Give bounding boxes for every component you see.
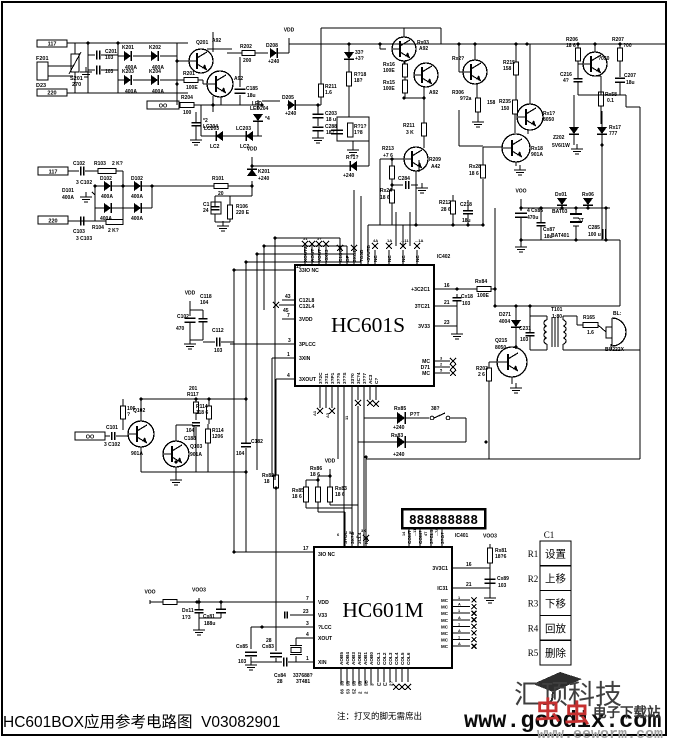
svg-text:18: 18 (264, 479, 270, 485)
svg-text:LC2: LC2 (210, 144, 220, 150)
svg-text:A92: A92 (419, 46, 428, 52)
svg-text:注：打叉的脚无需席出: 注：打叉的脚无需席出 (337, 711, 422, 721)
svg-text:+240: +240 (393, 452, 405, 458)
svg-text:3T: 3T (578, 218, 584, 224)
svg-text:+3?: +3? (355, 56, 364, 62)
svg-text:IC401: IC401 (455, 533, 469, 539)
svg-text:Z202: Z202 (553, 135, 565, 141)
svg-text:Rx24: Rx24 (380, 188, 392, 194)
svg-text:HC601BOX应用参考电路图 V03082901: HC601BOX应用参考电路图 V03082901 (3, 712, 280, 731)
svg-text:AOB0: AOB0 (369, 652, 374, 665)
svg-text:D208: D208 (266, 43, 278, 49)
svg-text:4: 4 (306, 632, 309, 638)
svg-text:R3: R3 (528, 599, 539, 609)
svg-text:400A: 400A (125, 89, 137, 95)
svg-text:COMT: COMT (407, 530, 412, 544)
svg-text:R202: R202 (240, 44, 252, 50)
svg-text:S?OC: S?OC (343, 530, 348, 544)
svg-text:BAT03: BAT03 (552, 209, 568, 215)
svg-text:AOB1: AOB1 (363, 652, 368, 665)
svg-text:+240: +240 (258, 176, 269, 182)
svg-text:117: 117 (48, 42, 57, 48)
svg-text:470u: 470u (527, 215, 538, 221)
svg-text:NC: NC (387, 255, 392, 262)
svg-text:K204: K204 (149, 69, 161, 75)
svg-text:1: 1 (306, 656, 309, 662)
svg-text:R212: R212 (439, 200, 451, 206)
svg-text:158: 158 (487, 100, 496, 106)
svg-text:17: 17 (296, 264, 302, 270)
svg-text:...1A: ...1A (415, 238, 424, 243)
svg-text:C182: C182 (251, 439, 263, 445)
svg-text:K202: K202 (149, 45, 161, 51)
svg-text:COL1: COL1 (376, 652, 381, 665)
svg-text:删除: 删除 (545, 647, 566, 660)
svg-text:4: 4 (287, 373, 290, 379)
svg-text:R201: R201 (183, 71, 195, 77)
svg-text:103: 103 (520, 337, 529, 343)
svg-text:100E: 100E (383, 86, 395, 92)
svg-text:MC: MC (441, 638, 449, 643)
svg-text:C185: C185 (246, 86, 258, 92)
svg-text:D101: D101 (62, 188, 74, 194)
svg-text:470: 470 (176, 326, 185, 332)
svg-text:MC: MC (441, 611, 449, 616)
svg-text:LC203: LC203 (236, 126, 251, 132)
svg-text:VDD: VDD (247, 147, 258, 153)
svg-text:16: 16 (444, 283, 450, 289)
svg-text:3b: 3b (340, 680, 345, 686)
svg-text:电子下载站: 电子下载站 (593, 704, 661, 720)
svg-text:VDD: VDD (325, 459, 336, 465)
svg-text:HC601M: HC601M (342, 598, 423, 622)
svg-text:400A: 400A (131, 194, 143, 200)
svg-text:VDD: VDD (318, 600, 329, 606)
svg-text:R306: R306 (452, 90, 464, 96)
svg-text:4T: 4T (424, 531, 428, 536)
svg-text:D205: D205 (282, 95, 294, 101)
svg-text:103: 103 (462, 301, 471, 307)
svg-text:18?6: 18?6 (495, 554, 507, 560)
svg-text:C218: C218 (460, 202, 472, 208)
svg-text:66: 66 (340, 688, 345, 694)
svg-text:3 K: 3 K (406, 130, 414, 136)
svg-text:3PLCC: 3PLCC (299, 342, 316, 348)
svg-text:3 C103: 3 C103 (76, 236, 92, 242)
svg-text:18 6: 18 6 (310, 472, 320, 478)
svg-text:⊏: ⊏ (382, 682, 388, 686)
svg-text:117: 117 (49, 170, 58, 176)
svg-text:R165: R165 (583, 315, 595, 321)
svg-text:A: A (458, 642, 461, 646)
svg-text:220 E: 220 E (236, 210, 250, 216)
svg-text:8050: 8050 (495, 345, 506, 351)
svg-text:NC: NC (415, 255, 420, 262)
svg-text:38?: 38? (431, 406, 440, 412)
svg-text:...11: ...11 (413, 529, 417, 536)
svg-text:A92: A92 (234, 76, 243, 82)
svg-text:901A: 901A (531, 152, 543, 158)
svg-text:0.1: 0.1 (607, 98, 614, 104)
svg-text:+3C2C1: +3C2C1 (411, 287, 430, 293)
svg-text:R209: R209 (429, 157, 441, 163)
svg-text:188u: 188u (204, 621, 215, 627)
svg-text:21: 21 (466, 582, 472, 588)
svg-text:Cx18: Cx18 (461, 294, 473, 300)
svg-text:Rx2?: Rx2? (452, 56, 464, 62)
svg-text:100E: 100E (383, 68, 395, 74)
svg-text:C102: C102 (73, 161, 85, 167)
svg-text:上移: 上移 (545, 572, 566, 585)
svg-text:OO: OO (159, 104, 168, 110)
svg-text:53: 53 (346, 688, 351, 694)
svg-text:COL2: COL2 (382, 652, 387, 665)
svg-text:C1: C1 (544, 530, 555, 540)
svg-text:D102: D102 (100, 176, 112, 182)
svg-text:BAT401: BAT401 (551, 233, 569, 239)
svg-text:18 6: 18 6 (469, 171, 479, 177)
svg-text:18u: 18u (626, 80, 635, 86)
svg-text:Q201: Q201 (196, 40, 208, 46)
svg-text:5b: 5b (352, 680, 357, 686)
svg-text:HC601S: HC601S (331, 313, 405, 337)
svg-text:4A: 4A (373, 238, 378, 243)
svg-text:COM?: COM? (418, 530, 423, 544)
svg-text:+240: +240 (343, 173, 354, 179)
svg-text:3C?4: 3C?4 (356, 372, 361, 384)
svg-text:Q215: Q215 (495, 338, 507, 344)
svg-text:下移: 下移 (545, 597, 566, 610)
svg-text:C102: C102 (177, 314, 189, 320)
svg-text:888888888: 888888888 (409, 514, 478, 529)
svg-text:AOB3: AOB3 (351, 652, 356, 665)
svg-text:BU222X: BU222X (605, 347, 625, 353)
svg-text:A1: A1 (312, 410, 317, 416)
svg-text:100E: 100E (186, 85, 198, 91)
svg-text:Rx28: Rx28 (469, 164, 481, 170)
svg-text:R117: R117 (187, 392, 199, 398)
svg-text:3: 3 (306, 621, 309, 627)
svg-text:AOB5: AOB5 (339, 652, 344, 665)
svg-text:104: 104 (236, 451, 245, 457)
svg-text:?: ? (127, 412, 130, 418)
svg-text:COL5: COL5 (400, 652, 405, 665)
svg-text:COL6: COL6 (406, 652, 411, 665)
svg-text:XOUT2: XOUT2 (303, 246, 308, 262)
svg-text:COL4: COL4 (394, 652, 399, 665)
svg-text:3??5: 3??5 (336, 373, 341, 384)
svg-text:Q102: Q102 (133, 408, 145, 414)
svg-text:1?8: 1?8 (354, 130, 363, 136)
svg-text:D271: D271 (499, 312, 511, 318)
svg-text:VDD: VDD (284, 28, 295, 34)
svg-text:103: 103 (498, 583, 507, 589)
svg-text:Rx85: Rx85 (394, 406, 406, 412)
svg-text:3X: 3X (361, 528, 366, 533)
svg-text:150: 150 (501, 106, 510, 112)
svg-text:400A: 400A (152, 89, 164, 95)
svg-text:K203: K203 (122, 69, 134, 75)
svg-text:MC: MC (441, 605, 449, 610)
svg-text:R103: R103 (94, 161, 106, 167)
svg-text:R?1?: R?1? (346, 155, 359, 161)
svg-text:⊏: ⊏ (376, 682, 382, 686)
svg-text:43: 43 (285, 294, 291, 300)
svg-text:5b: 5b (346, 680, 351, 686)
svg-text:C101: C101 (106, 425, 118, 431)
svg-text:LC203: LC203 (204, 126, 219, 132)
svg-text:C112: C112 (212, 328, 224, 334)
svg-text:R213: R213 (382, 146, 394, 152)
svg-text:3IO NC: 3IO NC (318, 552, 335, 558)
svg-text:158: 158 (503, 66, 512, 72)
svg-text:3VDD: 3VDD (299, 317, 313, 323)
svg-text:OO: OO (86, 435, 95, 441)
svg-text:3: 3 (288, 338, 291, 344)
svg-text:A: A (458, 629, 461, 633)
svg-text:2 K?: 2 K? (108, 228, 119, 234)
svg-text:?00: ?00 (623, 43, 632, 49)
svg-text:18?: 18? (354, 78, 363, 84)
svg-text:Cx89: Cx89 (497, 576, 509, 582)
svg-text:28: 28 (277, 679, 283, 685)
svg-text:3?CL1: 3?CL1 (429, 529, 434, 544)
svg-text:A: A (458, 603, 461, 607)
svg-text:3?P1: 3?P1 (330, 372, 335, 384)
svg-text:21: 21 (444, 300, 450, 306)
svg-text:3XIN: 3XIN (299, 356, 311, 362)
svg-text:4?: 4? (563, 78, 569, 84)
svg-text:A: A (458, 616, 461, 620)
svg-text:7: 7 (287, 313, 290, 319)
svg-text:*4: *4 (265, 116, 270, 122)
svg-text:18 u: 18 u (326, 117, 336, 123)
svg-text:18 6: 18 6 (335, 492, 345, 498)
svg-text:1?3: 1?3 (182, 615, 191, 621)
svg-text:16: 16 (466, 562, 472, 568)
svg-text:33?0: 33?0 (350, 373, 355, 384)
svg-text:3V33: 3V33 (418, 324, 430, 330)
svg-text:3??S: 3??S (342, 373, 347, 384)
svg-text:NC: NC (373, 255, 378, 262)
svg-text:IC402: IC402 (437, 254, 451, 260)
svg-text:3 C102: 3 C102 (76, 180, 92, 186)
svg-text:51: 51 (303, 236, 308, 241)
svg-text:3XOUT: 3XOUT (299, 377, 317, 383)
svg-text:D102: D102 (131, 176, 143, 182)
svg-text:100E: 100E (477, 293, 489, 299)
svg-text:虫: 虫 (535, 697, 560, 725)
svg-text:AOB2: AOB2 (357, 652, 362, 665)
svg-text:R1: R1 (528, 549, 539, 559)
svg-text:104: 104 (200, 300, 209, 306)
svg-text:23: 23 (444, 320, 450, 326)
svg-text:18u: 18u (247, 93, 256, 99)
svg-text:220: 220 (47, 91, 56, 97)
svg-text:400A: 400A (62, 195, 74, 201)
svg-text:400A: 400A (131, 216, 143, 222)
svg-text:MC: MC (441, 598, 449, 603)
svg-text:1: 1 (458, 622, 460, 626)
svg-text:VOO: VOO (144, 590, 155, 596)
svg-text:100: 100 (183, 110, 192, 116)
svg-text:1206: 1206 (212, 434, 223, 440)
svg-text:VOUT: VOUT (317, 249, 322, 262)
svg-text:VOO3: VOO3 (483, 534, 497, 540)
svg-text:VDD: VDD (185, 291, 196, 297)
svg-text:C207: C207 (624, 73, 636, 79)
svg-text:OF: OF (345, 255, 350, 262)
svg-text:MC: MC (441, 624, 449, 629)
svg-text:3V3C1: 3V3C1 (432, 566, 448, 572)
svg-text:201: 201 (189, 386, 198, 392)
svg-text:3?2C: 3?2C (318, 372, 323, 384)
svg-text:2 6: 2 6 (478, 372, 485, 378)
svg-text:C12L4: C12L4 (299, 304, 314, 310)
svg-text:Rx06: Rx06 (582, 192, 594, 198)
svg-text:5Z: 5Z (352, 688, 357, 694)
svg-text:C?: C? (374, 378, 379, 384)
svg-text:3T481: 3T481 (296, 679, 310, 685)
svg-text:3 C102: 3 C102 (104, 442, 120, 448)
svg-text:VOO3: VOO3 (192, 588, 206, 594)
svg-text:1.6: 1.6 (587, 330, 594, 336)
svg-text:AC3: AC3 (368, 374, 373, 384)
svg-text:?050: ?050 (598, 56, 610, 62)
svg-text:5?: 5? (317, 236, 322, 241)
svg-text:104: 104 (186, 428, 195, 434)
svg-text:MC: MC (441, 631, 449, 636)
svg-text:Cx85: Cx85 (236, 644, 248, 650)
svg-text:2?: 2? (389, 680, 394, 686)
svg-text:?LCC: ?LCC (318, 625, 332, 631)
svg-text:A42: A42 (431, 164, 440, 170)
svg-text:17: 17 (303, 546, 309, 552)
svg-text:AOUT: AOUT (310, 249, 315, 262)
svg-text:3TC21: 3TC21 (415, 304, 430, 310)
svg-text:270: 270 (72, 82, 81, 88)
svg-text:T101: T101 (551, 307, 563, 313)
svg-text:...11: ...11 (401, 238, 409, 243)
svg-text:2 K?: 2 K? (112, 161, 123, 167)
svg-text:4004: 4004 (499, 319, 510, 325)
svg-text:NC: NC (401, 255, 406, 262)
svg-text:F201: F201 (36, 56, 49, 62)
svg-text:5b: 5b (358, 680, 363, 686)
svg-text:28 6: 28 6 (441, 207, 451, 213)
svg-text:18 6: 18 6 (380, 195, 390, 201)
svg-text:+240: +240 (285, 111, 296, 117)
svg-text:虫: 虫 (564, 700, 589, 728)
svg-text:1: 1 (458, 636, 460, 640)
svg-text:R204: R204 (181, 95, 193, 101)
svg-text:3?31: 3?31 (324, 373, 329, 384)
svg-text:5V6/1W: 5V6/1W (552, 143, 570, 149)
svg-text:Cx81: Cx81 (203, 614, 215, 620)
svg-text:A3: A3 (325, 412, 330, 418)
svg-text:Dx11: Dx11 (182, 608, 194, 614)
svg-text:K201: K201 (258, 169, 270, 175)
svg-text:A92: A92 (429, 90, 438, 96)
svg-text:400A: 400A (101, 194, 113, 200)
svg-text:777: 777 (609, 131, 618, 137)
svg-text:103: 103 (214, 348, 223, 354)
svg-text:XOUT: XOUT (318, 636, 333, 642)
svg-text:R101: R101 (212, 176, 224, 182)
svg-text:K201: K201 (122, 45, 134, 51)
svg-text:MC: MC (422, 371, 430, 377)
svg-text:100 u: 100 u (588, 232, 601, 238)
svg-text:COL3: COL3 (388, 652, 393, 665)
svg-text:103: 103 (238, 659, 247, 665)
svg-text:18u: 18u (462, 218, 471, 224)
svg-text:BL:: BL: (613, 311, 622, 317)
svg-text:IC31: IC31 (437, 586, 448, 592)
svg-text:18 6: 18 6 (566, 43, 576, 49)
svg-text:V33: V33 (318, 613, 327, 619)
svg-text:7: 7 (306, 596, 309, 602)
svg-text:1: 1 (287, 352, 290, 358)
svg-text:R5: R5 (528, 648, 539, 658)
svg-text:R235: R235 (499, 99, 511, 105)
svg-text:R211: R211 (403, 123, 415, 129)
svg-text:9?2a: 9?2a (460, 96, 472, 102)
svg-text:18 6: 18 6 (292, 494, 302, 500)
svg-text:-3X23: -3X23 (324, 249, 329, 262)
svg-text:103: 103 (105, 55, 114, 61)
svg-text:1:80: 1:80 (552, 314, 562, 320)
svg-text:Cx83: Cx83 (262, 644, 274, 650)
svg-text:28: 28 (266, 638, 272, 644)
svg-text:设置: 设置 (545, 548, 566, 560)
svg-text:8050: 8050 (543, 117, 554, 123)
svg-text:1: 1 (458, 609, 460, 613)
svg-text:C284: C284 (398, 176, 410, 182)
svg-text:Rx84: Rx84 (475, 279, 487, 285)
svg-text:+240: +240 (393, 425, 405, 431)
svg-text:+240: +240 (268, 59, 279, 65)
svg-text:MC: MC (441, 644, 449, 649)
svg-text:Dx01: Dx01 (555, 192, 567, 198)
svg-text:220: 220 (48, 219, 57, 225)
svg-text:118 6: 118 6 (196, 410, 208, 416)
svg-text:24: 24 (203, 208, 209, 214)
svg-text:51: 51 (349, 530, 354, 535)
svg-text:R104: R104 (92, 225, 104, 231)
svg-text:回放: 回放 (545, 622, 566, 635)
svg-text:www.eeworm.com: www.eeworm.com (537, 726, 663, 738)
svg-text:R4: R4 (528, 623, 539, 633)
svg-text:200: 200 (243, 58, 252, 64)
svg-text:C103: C103 (73, 229, 85, 235)
svg-text:1: 1 (458, 596, 460, 600)
svg-text:D23: D23 (36, 83, 46, 89)
svg-text:P?T: P?T (410, 412, 421, 418)
svg-text:R2: R2 (528, 574, 539, 584)
svg-text:AOB4: AOB4 (345, 652, 350, 665)
svg-text:33IO NC: 33IO NC (299, 268, 319, 274)
svg-text:C285: C285 (588, 225, 600, 231)
svg-text:VOO: VOO (515, 189, 526, 195)
svg-text:Rx83: Rx83 (391, 433, 403, 439)
svg-text:XIN: XIN (318, 660, 327, 666)
svg-text:MC: MC (441, 618, 449, 623)
svg-text:5B: 5B (364, 679, 369, 686)
svg-text:1.6: 1.6 (325, 90, 332, 96)
svg-text:1A: 1A (387, 238, 392, 243)
svg-text:3?O?: 3?O? (440, 532, 445, 544)
svg-text:23: 23 (303, 609, 309, 615)
